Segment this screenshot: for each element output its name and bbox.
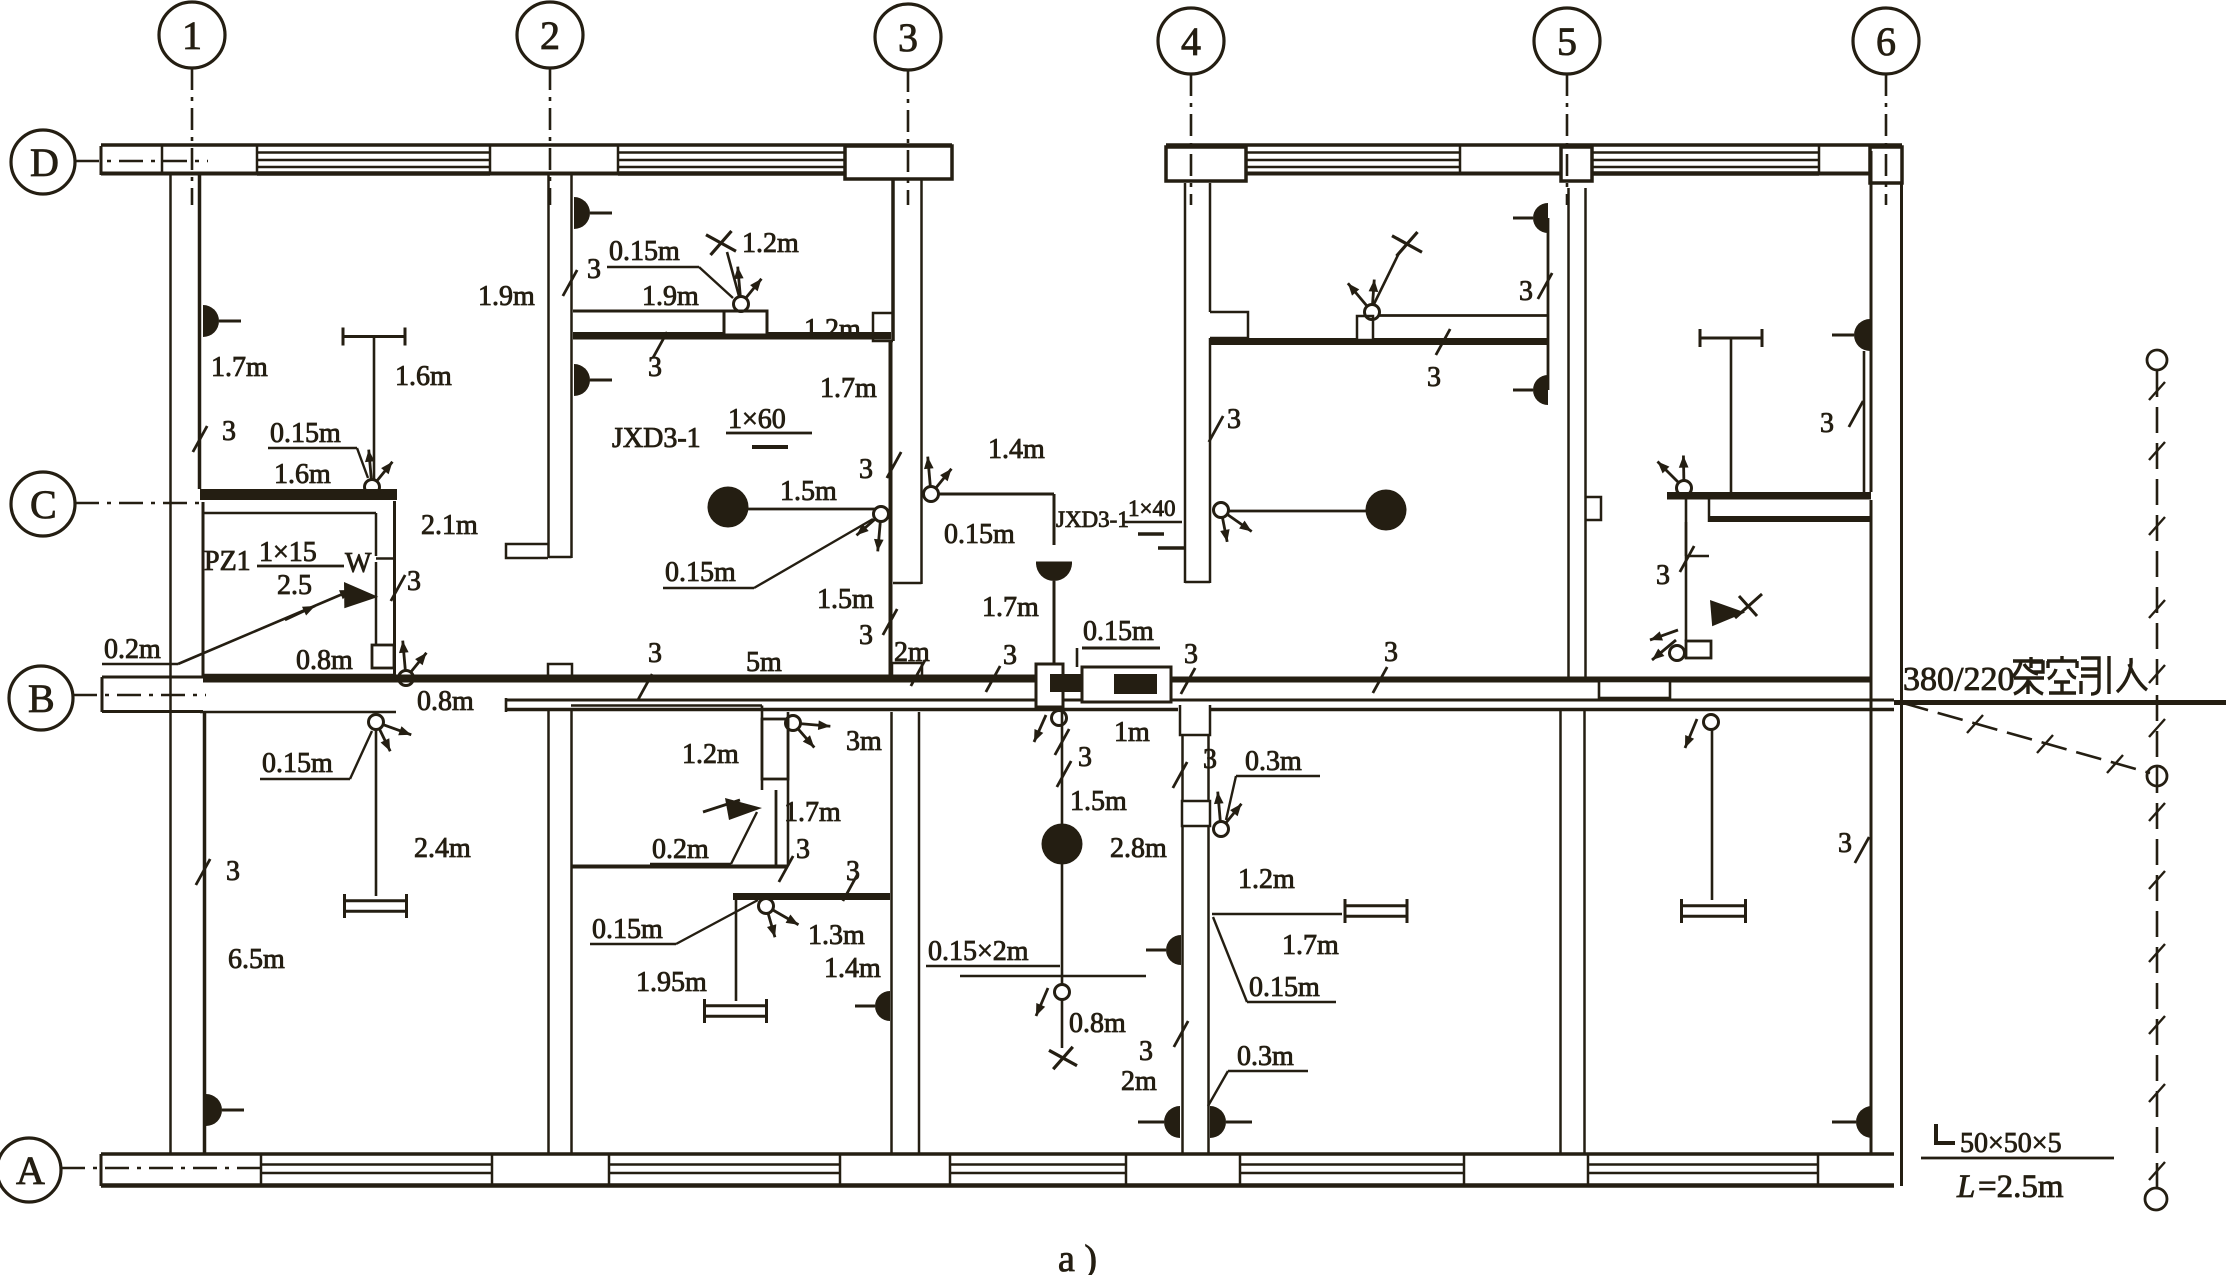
door rect corridor at grid5 (1599, 681, 1670, 698)
switch S8 (1670, 646, 1685, 661)
window W5 bottom (grid1-2) (261, 1163, 492, 1166)
small room 1.2m: top wall (571, 704, 762, 707)
PZ1 room outer right (393, 501, 396, 677)
switch S11 at door (786, 716, 831, 748)
bottom exterior wall band (101, 1152, 1894, 1156)
svg-text:L: L (1956, 1169, 1975, 1205)
svg-text:3: 3 (1656, 560, 1670, 591)
380/220 overhead feeder line (1894, 700, 2226, 705)
door niche on grid4 wall below corridor (1182, 801, 1210, 826)
wire from wall lamp down (1863, 351, 1866, 492)
switch S4 courtyard (924, 457, 952, 502)
wall grid3 below corridor (890, 712, 893, 1154)
wall lamp pair at grid4 wall bottom (1138, 1106, 1180, 1138)
grid column circle 6 (1853, 8, 1919, 74)
junction box outline left (1036, 664, 1063, 707)
svg-text:0.3m: 0.3m (1237, 1041, 1294, 1072)
pendant bar room5-6 (1700, 329, 1762, 493)
svg-text:1.5m: 1.5m (780, 476, 837, 507)
top wall right end column (1870, 147, 1902, 183)
svg-text:3: 3 (1078, 742, 1092, 773)
svg-text:3: 3 (1227, 404, 1241, 435)
top wall column at grid 4 (1166, 147, 1246, 181)
svg-text:1.6m: 1.6m (274, 459, 331, 490)
svg-text:0.15m: 0.15m (609, 236, 680, 267)
wire S10 down to pendant (375, 730, 378, 896)
svg-text:1.2m: 1.2m (804, 314, 861, 345)
svg-text:1.2m: 1.2m (742, 228, 799, 259)
svg-text:0.15m: 0.15m (1249, 972, 1320, 1003)
svg-text:1m: 1m (1114, 717, 1150, 748)
switch S16 below corridor (1704, 715, 1719, 730)
svg-text:W: W (345, 548, 372, 579)
top exterior wall, left wing band (101, 143, 952, 147)
switch S12 below room (759, 899, 799, 938)
grid line 2 (dash-dot) (549, 68, 552, 205)
wall lamp lower room1-2 (206, 1094, 244, 1126)
double-bar pendant room4-5 (1345, 899, 1407, 923)
svg-text:0.8m: 0.8m (417, 686, 474, 717)
room 5-6 south wall (thick) (1667, 492, 1871, 500)
svg-text:0.15m: 0.15m (592, 914, 663, 945)
wall grid2 above corridor (547, 175, 550, 558)
rect by switch (1686, 641, 1711, 658)
row D dash-dot line (75, 160, 208, 163)
wire to pendant (1212, 913, 1342, 916)
wall grid4 below corridor with pier (1180, 705, 1210, 735)
svg-text:3: 3 (648, 638, 662, 669)
svg-text:0.15m: 0.15m (1083, 616, 1154, 647)
svg-text:3: 3 (1384, 637, 1398, 668)
svg-text:3: 3 (796, 834, 810, 865)
grid row circle B (9, 666, 73, 730)
left exterior wall (grid 1) outer line (169, 174, 172, 1154)
switch at PZ1 corner (S9) (399, 641, 427, 686)
corridor top wall / feeder run (203, 675, 1171, 683)
bottom wall block at grid 1 (with A axis dashes) (260, 1155, 263, 1185)
wall grid3 / courtyard west wall (891, 180, 895, 341)
svg-text:3: 3 (1184, 639, 1198, 670)
switch S13 below boxes (1052, 711, 1067, 726)
D row block right edge (161, 146, 164, 174)
svg-text:=2.5m: =2.5m (1978, 1169, 2064, 1205)
svg-text:1.7m: 1.7m (1282, 930, 1339, 961)
svg-text:0.15m: 0.15m (944, 519, 1015, 550)
switch S1 below pendant (on C wall) (365, 450, 393, 495)
switch S15 at door grid4 (1214, 792, 1242, 837)
leader 0.2m to triangle (178, 590, 352, 664)
grid row circle A (0, 1138, 61, 1202)
svg-text:D: D (30, 140, 59, 185)
pendant wire 1.95m (735, 900, 738, 1001)
x-lamp room2-3 (706, 231, 736, 255)
window W9 bottom (grid5-6) (1588, 1163, 1818, 1166)
switch S7 room5-6 (1657, 456, 1691, 496)
grid line 1 (dash-dot) (191, 68, 194, 205)
svg-text:1.7m: 1.7m (820, 373, 877, 404)
pendant lamp bar 1.6m room1-2 (343, 328, 405, 481)
svg-text:0.2m: 0.2m (104, 634, 161, 665)
window W6 bottom (grid2-3) (609, 1163, 840, 1166)
wall lamp on grid3 wall below (855, 991, 890, 1021)
stem to switch (1374, 253, 1399, 304)
wall grid4 / courtyard east wall (1184, 183, 1187, 583)
ceiling lamp room4-5 (1366, 490, 1407, 531)
small room 1.2m: bottom wall (571, 865, 788, 869)
x-lamp room4-5 (1392, 232, 1422, 256)
svg-text:1.7m: 1.7m (211, 352, 268, 383)
vertical wire between wall lamps (1547, 218, 1550, 390)
row C dash-dot line (75, 502, 206, 505)
svg-text:1.7m: 1.7m (784, 797, 841, 828)
svg-text:1×60: 1×60 (728, 404, 786, 435)
stem from x-lamp to switch (727, 252, 739, 296)
corridor top wall right part (1171, 677, 1871, 683)
svg-text:3: 3 (407, 566, 421, 597)
wall lamp tick line (960, 975, 1146, 978)
corridor bottom wall lower line (506, 708, 1178, 712)
svg-text:3: 3 (587, 254, 601, 285)
svg-text:4: 4 (1181, 19, 1201, 64)
svg-text:0.2m: 0.2m (652, 834, 709, 865)
room 2-3 north wall (thick) (573, 332, 891, 340)
svg-text:1.9m: 1.9m (478, 281, 535, 312)
wall lamp pair on wire, upper (1513, 203, 1548, 233)
svg-text:1.2m: 1.2m (1238, 864, 1295, 895)
wall lamp on grid4 wall west (1146, 935, 1181, 965)
svg-text:1.3m: 1.3m (808, 920, 865, 951)
grid line 4 (dash-dot) (1190, 74, 1193, 205)
wire lamp to switch (748, 508, 876, 511)
wall grid2 below corridor (547, 709, 550, 1154)
svg-text:2.5: 2.5 (277, 570, 312, 601)
svg-text:3: 3 (1838, 828, 1852, 859)
B row outer wall block left (102, 676, 203, 679)
feeder drop dashed diagonal (1903, 703, 2150, 773)
svg-text:0.15m: 0.15m (262, 748, 333, 779)
grid column circle 4 (1158, 8, 1224, 74)
svg-text:380/220: 380/220 (1903, 661, 2014, 698)
svg-text:1.6m: 1.6m (395, 361, 452, 392)
svg-text:1×15: 1×15 (259, 537, 317, 568)
double-bar pendant room5-6 (1682, 899, 1746, 923)
svg-text:2.8m: 2.8m (1110, 833, 1167, 864)
top exterior wall, right wing band (1166, 143, 1902, 147)
wire down from door corner (775, 790, 778, 866)
PZ1 room inner right (375, 513, 378, 556)
ceiling lamp room3-4 (1042, 824, 1083, 865)
leader 0.15m to switch (357, 448, 368, 478)
svg-text:3: 3 (226, 856, 240, 887)
top wall column at grid 5 (1561, 147, 1592, 181)
wire to x-lamp (1061, 1000, 1064, 1048)
door niche rect room4-5 (1357, 316, 1373, 340)
svg-text:1.95m: 1.95m (636, 967, 707, 998)
svg-text:3: 3 (1203, 744, 1217, 775)
top wall plain segment grid4-5 to 5 (1460, 172, 1561, 176)
架空引入 glyphs (2012, 657, 2044, 694)
window W3 in top wall (grid4-5) (1246, 151, 1460, 154)
svg-text:0.3m: 0.3m (1245, 746, 1302, 777)
tick marks on diagonal (1967, 715, 1983, 733)
ceiling lamp room2-3 (708, 487, 749, 528)
svg-text:1×40: 1×40 (1128, 496, 1175, 521)
wall grid5 below corridor (1559, 711, 1562, 1154)
pier on east side of grid4 wall (1210, 312, 1248, 338)
junction box outline right (1082, 667, 1171, 702)
wire to wall lamps room4-5 (1379, 314, 1548, 317)
PZ1 room inner top (202, 512, 376, 515)
grid line 3 (dash-dot) (907, 70, 910, 205)
switch S2 room2-3 (734, 267, 762, 312)
svg-text:1.5m: 1.5m (817, 584, 874, 615)
wall lamp pair on wire, lower (1513, 375, 1548, 405)
grid column circle 1 (159, 2, 225, 68)
room 2-3 east wall (thick) (889, 341, 893, 677)
svg-text:0.15m: 0.15m (665, 557, 736, 588)
svg-text:50×50×5: 50×50×5 (1960, 1128, 2062, 1159)
wall lamp on east wall (1832, 319, 1870, 351)
door frame notch at grid2 corridor (548, 664, 572, 677)
svg-text:1.7m: 1.7m (982, 592, 1039, 623)
svg-text:2m: 2m (1121, 1066, 1157, 1097)
svg-text:3: 3 (1427, 362, 1441, 393)
slash ticks on pole line (2149, 382, 2165, 400)
window W7 bottom (grid3-4) (950, 1163, 1126, 1166)
pole bottom circle (2145, 1188, 2167, 1210)
switch S14 (1055, 985, 1070, 1000)
room top wall left of corridor door (200, 711, 396, 714)
distribution box JXD (filled) right (1114, 674, 1157, 694)
svg-text:3: 3 (898, 15, 918, 60)
grid row circle C (11, 472, 75, 536)
pull switch cluster above corridor right (1708, 600, 1746, 628)
grid column circle 3 (875, 4, 941, 70)
svg-text:JXD3-1: JXD3-1 (612, 423, 701, 454)
svg-text:0.8m: 0.8m (296, 645, 353, 676)
pull switch triangle PZ1 (340, 582, 379, 613)
socket rect on PZ1 east wall (372, 645, 394, 668)
door niche rect room2-3 (724, 311, 767, 335)
double-bar pendant room1-2 below (345, 894, 407, 918)
svg-text:1.5m: 1.5m (1070, 786, 1127, 817)
leader to S10 (350, 731, 372, 779)
wire from switch down (1685, 496, 1688, 641)
partition wall y896 (733, 893, 890, 900)
wall lamp on grid1 wall (1.7m room) (203, 305, 241, 337)
svg-text:3: 3 (1519, 276, 1533, 307)
svg-text:A: A (16, 1148, 45, 1193)
svg-text:5: 5 (1557, 19, 1577, 64)
distribution box JXD (filled) left (1050, 674, 1093, 692)
step between walls (1708, 499, 1711, 522)
L50x50x5 label (1936, 1124, 1955, 1143)
wall lamp on grid2 wall lower (574, 364, 612, 396)
switch S6 on grid4 wall (1214, 503, 1252, 542)
svg-text:a ): a ) (1058, 1238, 1097, 1275)
svg-text:1.4m: 1.4m (824, 953, 881, 984)
pier on east side of grid5 wall (1586, 497, 1601, 520)
pole line vertical dashed (2156, 371, 2159, 1188)
svg-text:5m: 5m (746, 647, 782, 678)
window W8 bottom (grid4-5) (1240, 1163, 1464, 1166)
svg-text:3: 3 (222, 416, 236, 447)
svg-text:JXD3-1: JXD3-1 (1056, 507, 1129, 532)
svg-text:0.15m: 0.15m (270, 418, 341, 449)
svg-text:0.15×2m: 0.15×2m (928, 936, 1029, 967)
grid line 6 (dash-dot) (1885, 74, 1888, 205)
lower parallel wall (1709, 516, 1871, 522)
0.15m underline/connector above boxes (1082, 647, 1160, 650)
x-lamp room3-4 (1049, 1047, 1077, 1069)
svg-text:2.4m: 2.4m (414, 833, 471, 864)
switch S5 room4-5 (1348, 280, 1380, 320)
pole circle mid (2147, 766, 2167, 786)
svg-text:PZ1: PZ1 (204, 546, 251, 577)
small room 1.2m: right wall (761, 706, 764, 791)
window W4 in top wall (grid5-6) (1592, 151, 1819, 154)
svg-text:3: 3 (859, 454, 873, 485)
grid column circle 5 (1534, 8, 1600, 74)
pier on west side of grid3 wall (873, 313, 893, 341)
pole top circle (2147, 350, 2167, 370)
svg-text:3: 3 (1139, 1036, 1153, 1067)
top wall column at grid 3 (845, 146, 952, 179)
half-dome lamp courtyard (1036, 563, 1072, 581)
right exterior wall pair (1870, 151, 1873, 492)
door frame notch at grid3 corridor (892, 663, 922, 677)
switch below corridor S10 (369, 715, 412, 752)
svg-text:2: 2 (540, 13, 560, 58)
wire from dome lamp to corridor box (1053, 581, 1056, 664)
svg-text:6.5m: 6.5m (228, 944, 285, 975)
svg-text:3: 3 (1820, 408, 1834, 439)
svg-text:2.1m: 2.1m (421, 510, 478, 541)
svg-text:0.8m: 0.8m (1069, 1008, 1126, 1039)
window W2 in top wall (grid2-3) (618, 151, 845, 154)
switch S3 room2-3 east (856, 507, 888, 552)
grid column circle 2 (517, 2, 583, 68)
svg-text:1.2m: 1.2m (682, 739, 739, 770)
row A dash-dot line (61, 1167, 262, 1170)
wall grid5 above corridor (1567, 188, 1570, 677)
svg-text:B: B (28, 676, 55, 721)
leader to switch S3 (754, 519, 873, 588)
row B dash-dot line (73, 694, 206, 697)
wire to ceiling lamp (1229, 510, 1366, 513)
svg-text:6: 6 (1876, 19, 1896, 64)
wire 1.4m courtyard (938, 493, 1054, 496)
room 4-5 partition wall (thick) (1210, 338, 1548, 345)
svg-text:C: C (30, 482, 57, 527)
grid row circle D (11, 130, 75, 194)
top wall plain segment to right column (1819, 172, 1870, 176)
svg-text:3m: 3m (846, 726, 882, 757)
wire down to pendant (1711, 730, 1714, 900)
door rect small room (762, 719, 788, 779)
row C wall (thick) room1-2 south (200, 489, 397, 500)
window W1 in top wall (grid1-2) (257, 151, 490, 154)
svg-text:3: 3 (1003, 640, 1017, 671)
pull switch triangle small room (725, 798, 762, 820)
leader to switch (699, 267, 733, 298)
svg-text:1.4m: 1.4m (988, 434, 1045, 465)
wall lamp east wall below (1832, 1106, 1872, 1138)
notch at foot of grid2 wall (506, 544, 548, 558)
wire 1.9m along north wall (573, 310, 726, 313)
corridor bottom wall / feeder line (506, 699, 1894, 702)
wall lamp on grid2 wall upper (574, 197, 612, 229)
svg-text:1: 1 (182, 13, 202, 58)
grid line 5 (dash-dot) (1566, 74, 1569, 205)
PZ1 room bottom (202, 674, 394, 678)
svg-text:3: 3 (859, 620, 873, 651)
wire corridor to lamp (1061, 710, 1064, 984)
svg-text:1.9m: 1.9m (642, 281, 699, 312)
left exterior wall (grid 1) inner line (198, 174, 202, 489)
